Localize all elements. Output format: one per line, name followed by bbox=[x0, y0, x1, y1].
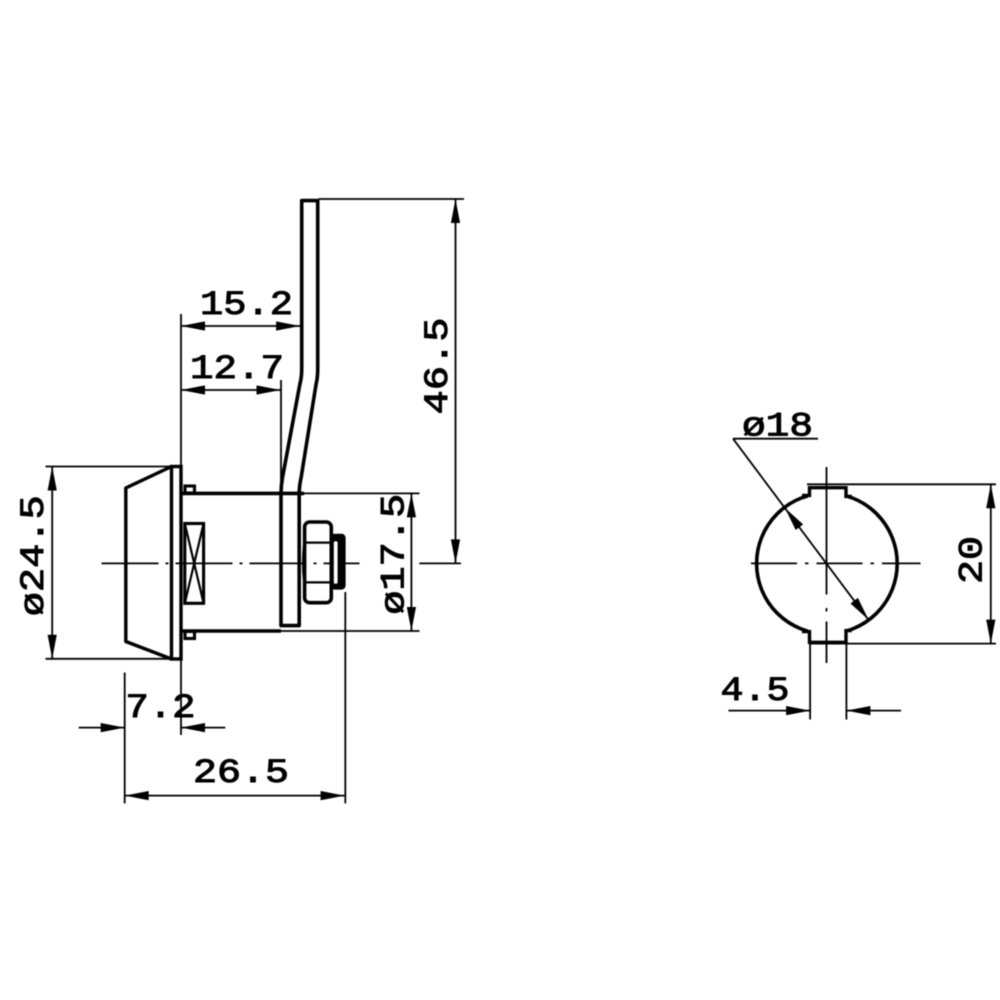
dimension o24.5 line bbox=[51, 467, 53, 659]
dimension 15.2 arrow left bbox=[181, 321, 205, 330]
dimension 4.5 arrow right bbox=[846, 706, 870, 715]
svg-text:7.2: 7.2 bbox=[126, 690, 196, 728]
cam tail end behind nut bbox=[331, 534, 346, 590]
svg-text:46.5: 46.5 bbox=[420, 318, 458, 415]
dimension 4.5 line right segment bbox=[846, 710, 901, 712]
extension line 46.5 top bbox=[319, 198, 465, 200]
anti-rotation tab bottom bbox=[185, 632, 195, 639]
extension line 12.7 right bbox=[280, 380, 282, 486]
label o18 arrow lower bbox=[851, 598, 869, 620]
svg-text:ø24.5: ø24.5 bbox=[16, 495, 54, 616]
dimension 26.5 arrow left bbox=[125, 791, 149, 800]
threaded section symbol box bbox=[185, 524, 204, 604]
dimension o24.5 arrow top bbox=[48, 467, 57, 491]
extension line 20 top bbox=[807, 483, 996, 485]
threaded section X diagonal 2 bbox=[185, 524, 204, 604]
hole tab masks bbox=[808, 480, 848, 502]
extension line 4.5 right bbox=[845, 644, 847, 720]
extension line o24.5 top bbox=[46, 466, 171, 468]
svg-text:20: 20 bbox=[955, 536, 993, 584]
svg-text:4.5: 4.5 bbox=[721, 673, 790, 711]
dimension 46.5 arrow top bbox=[451, 199, 460, 223]
dimension 26.5 arrow right bbox=[321, 791, 345, 800]
hex nut facet line lower bbox=[303, 581, 332, 583]
vertical center line right view bbox=[826, 467, 828, 595]
dimension o17.5 line bbox=[410, 493, 412, 631]
extension line o17.5 top bbox=[304, 492, 420, 494]
extension line o24.5 bottom bbox=[46, 658, 173, 660]
cylinder body top edge bbox=[181, 492, 304, 496]
extension line 7.2/26.5 left bbox=[124, 673, 126, 804]
svg-text:26.5: 26.5 bbox=[193, 755, 289, 793]
dimension 20 line bbox=[990, 484, 992, 643]
anti-rotation tab top bbox=[185, 486, 195, 493]
threaded section X diagonal 1 bbox=[185, 524, 204, 604]
dimension 46.5 line bbox=[455, 199, 457, 563]
hole circle bbox=[757, 493, 898, 634]
dimension 7.2 arrow right bbox=[181, 723, 205, 732]
hex nut facet line upper bbox=[303, 541, 332, 543]
dimension 20 arrow bottom bbox=[986, 620, 995, 644]
dimension 26.5 line bbox=[125, 795, 345, 797]
svg-text:ø17.5: ø17.5 bbox=[377, 494, 415, 615]
extension line 26.5 right bbox=[344, 592, 346, 803]
extension line o17.5 bottom bbox=[281, 630, 420, 632]
dimension o17.5 arrow bottom bbox=[407, 607, 416, 631]
dimension 7.2 line right segment bbox=[181, 727, 225, 729]
svg-text:ø18: ø18 bbox=[742, 409, 813, 447]
dimension o24.5 arrow bottom bbox=[48, 635, 57, 659]
label o18 arrow upper bbox=[785, 508, 803, 530]
flange cone front face bbox=[126, 467, 172, 660]
label o18 underline bbox=[733, 438, 818, 440]
dimension 46.5 arrow bottom bbox=[451, 539, 460, 563]
hole bottom tab bbox=[802, 631, 852, 643]
dimension 15.2 arrow right bbox=[276, 321, 300, 330]
hex nut outline bbox=[305, 522, 332, 603]
dimension 7.2 arrow left bbox=[101, 723, 125, 732]
dimension 12.7 arrow right bbox=[257, 385, 281, 394]
dimension 7.2 line left segment bbox=[79, 727, 125, 729]
cylinder body bottom edge bbox=[181, 629, 281, 633]
dimension 12.7 line bbox=[181, 389, 281, 391]
extension line 20 bottom bbox=[809, 643, 996, 645]
svg-text:15.2: 15.2 bbox=[200, 287, 293, 325]
flange back plate bbox=[172, 467, 182, 660]
cam tail slot bbox=[334, 541, 338, 583]
cam lever strip bbox=[281, 201, 318, 626]
dimension 15.2 line bbox=[181, 325, 300, 327]
center line left view bbox=[102, 562, 360, 564]
hex nut middle facet bulge left bbox=[303, 544, 304, 581]
hole top tab bbox=[802, 488, 852, 497]
hex nut middle facet bulge right bbox=[332, 544, 333, 581]
dimension o17.5 arrow top bbox=[407, 493, 416, 517]
dimension 20 arrow top bbox=[986, 484, 995, 508]
dimension 4.5 arrow left bbox=[786, 706, 810, 715]
svg-text:12.7: 12.7 bbox=[190, 351, 284, 389]
extension line 4.5 left bbox=[809, 644, 811, 720]
dimension 12.7 arrow left bbox=[181, 385, 205, 394]
extension line at mounting face x=181 bbox=[180, 314, 182, 466]
horizontal center line right view bbox=[751, 562, 921, 564]
dimension 4.5 line left segment bbox=[729, 710, 811, 712]
label o18 leader line bbox=[733, 439, 869, 620]
